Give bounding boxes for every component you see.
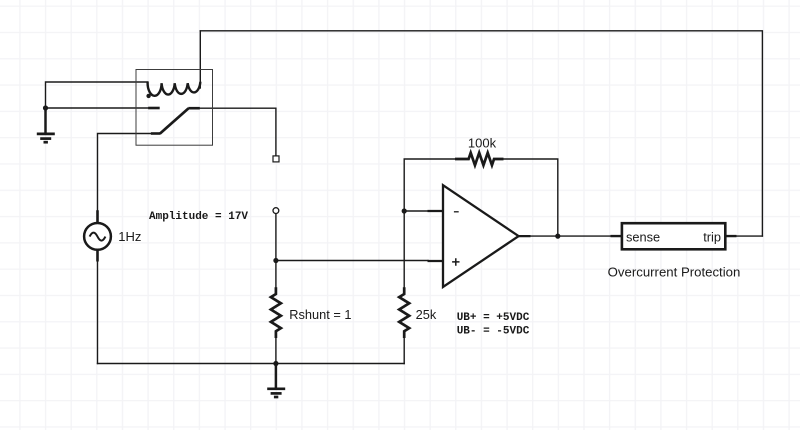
svg-text:Overcurrent Protection: Overcurrent Protection (608, 264, 741, 279)
svg-text:Rshunt = 1: Rshunt = 1 (289, 307, 351, 322)
svg-text:trip: trip (703, 230, 721, 245)
svg-text:Amplitude = 17V: Amplitude = 17V (149, 211, 248, 223)
svg-text:sense: sense (626, 230, 660, 245)
svg-text:UB+ = +5VDC: UB+ = +5VDC (457, 312, 530, 324)
svg-text:25k: 25k (416, 307, 437, 322)
svg-text:100k: 100k (468, 136, 497, 151)
svg-text:1Hz: 1Hz (118, 229, 141, 244)
svg-text:UB- = -5VDC: UB- = -5VDC (457, 325, 530, 337)
